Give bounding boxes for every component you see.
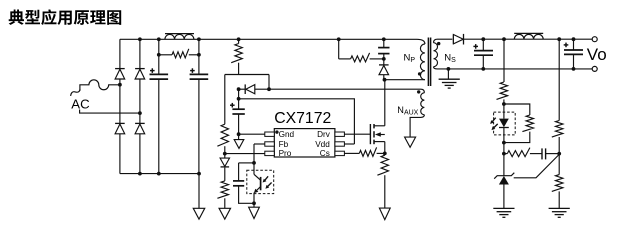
svg-text:Gnd: Gnd xyxy=(279,130,295,139)
svg-text:Vdd: Vdd xyxy=(315,140,330,149)
svg-text:NAUX: NAUX xyxy=(397,105,418,117)
svg-text:Vo: Vo xyxy=(587,45,607,64)
svg-text:NP: NP xyxy=(404,53,416,65)
svg-text:Drv: Drv xyxy=(317,130,331,139)
svg-text:NS: NS xyxy=(444,53,456,65)
svg-text:Cs: Cs xyxy=(320,149,330,158)
svg-text:CX7172: CX7172 xyxy=(274,110,331,127)
svg-text:Fb: Fb xyxy=(279,140,289,149)
svg-text:Pro: Pro xyxy=(279,149,292,158)
svg-text:AC: AC xyxy=(71,97,90,112)
